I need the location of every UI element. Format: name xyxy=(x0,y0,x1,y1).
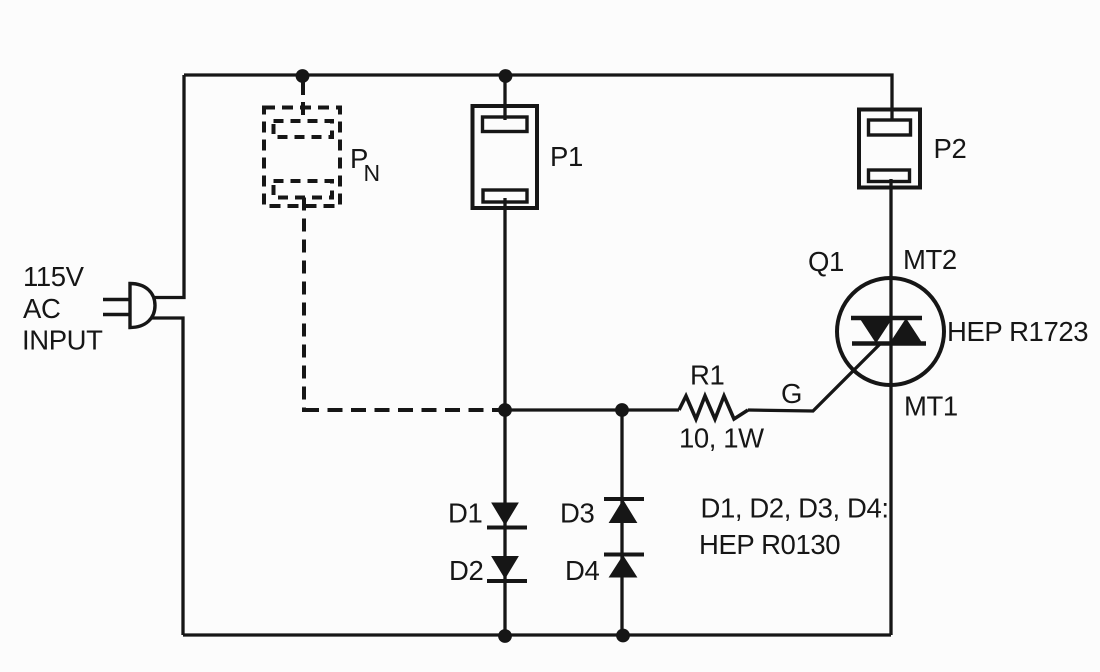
plug prong lower xyxy=(103,313,130,316)
junction node at gate node left (P1 branch) xyxy=(498,403,512,417)
junction node on bottom rail at D2 branch xyxy=(498,629,512,643)
wire: P2 bottom through triac to bottom rail xyxy=(889,179,892,635)
wire: left vertical (top rail down to plug upper terminal) xyxy=(148,75,184,298)
svg-text:115V: 115V xyxy=(23,261,85,292)
socket P2 upper slot xyxy=(869,120,911,135)
triac Q1 right triangle xyxy=(890,319,922,344)
socket P1 outline xyxy=(473,106,538,208)
svg-text:D1: D1 xyxy=(448,498,482,529)
wire: PN top stub (dashed) xyxy=(301,82,305,121)
svg-text:MT1: MT1 xyxy=(904,391,958,422)
wire: top rail from left vertical to right corner, drop to P2 xyxy=(184,75,892,121)
triac Q1 left triangle xyxy=(860,318,892,343)
socket P1 lower slot xyxy=(483,190,527,202)
svg-text:Q1: Q1 xyxy=(808,246,844,277)
triac Q1 circle xyxy=(837,278,944,385)
junction node on bottom rail at D4 branch xyxy=(616,629,630,643)
socket PN lower slot (dashed) xyxy=(274,181,333,198)
socket PN upper slot (dashed) xyxy=(274,121,333,137)
wire: P1 bottom through D1 D2 branch to bottom rail xyxy=(503,198,506,635)
diode D2 cathode bar xyxy=(487,579,527,583)
svg-text:D3: D3 xyxy=(560,498,594,529)
svg-text:AC: AC xyxy=(23,293,60,324)
diode D1 cathode bar xyxy=(487,526,527,530)
diode D2 triangle xyxy=(492,557,518,579)
plug prong upper xyxy=(103,298,130,301)
svg-text:N: N xyxy=(364,160,380,186)
wire: PN bottom stub dashed down to gate node level xyxy=(302,198,306,413)
socket P2 lower slot xyxy=(869,170,910,182)
triac Q1 upper bar xyxy=(851,316,922,321)
svg-text:MT2: MT2 xyxy=(903,244,957,275)
wire: dashed horizontal from PN branch to P1 branch junction xyxy=(304,408,499,412)
svg-text:HEP R0130: HEP R0130 xyxy=(699,529,840,560)
svg-text:R1: R1 xyxy=(690,360,724,391)
svg-text:10, 1W: 10, 1W xyxy=(679,423,764,454)
wire: D3 D4 branch from gate node to bottom rail xyxy=(620,410,623,635)
junction node on top rail at PN branch xyxy=(296,69,310,83)
socket P2 outline xyxy=(859,110,920,188)
svg-text:D4: D4 xyxy=(565,555,599,586)
diode D3 cathode bar xyxy=(604,497,644,501)
wire: P1 branch stub from top rail into P1 xyxy=(503,75,506,120)
svg-text:G: G xyxy=(781,378,802,409)
svg-text:P2: P2 xyxy=(934,133,967,164)
wire: plug lower terminal to left vertical down to bottom rail xyxy=(148,318,183,635)
resistor R1 xyxy=(679,396,748,419)
diode D4 cathode bar xyxy=(604,553,644,557)
svg-text:HEP R1723: HEP R1723 xyxy=(947,316,1088,347)
svg-text:INPUT: INPUT xyxy=(22,325,103,356)
svg-text:P1: P1 xyxy=(550,141,583,172)
diode D3 triangle xyxy=(610,501,637,523)
junction node on top rail at P1 branch xyxy=(499,69,513,83)
wire: gate node horizontal from junction to resistor xyxy=(505,408,679,411)
socket P1 upper slot xyxy=(483,117,528,132)
wire: bottom rail xyxy=(183,633,891,636)
diode D1 triangle xyxy=(492,503,518,525)
plug: 115V AC line plug body xyxy=(130,284,155,328)
svg-text:D2: D2 xyxy=(449,555,483,586)
socket PN dashed outline xyxy=(264,108,340,207)
junction node at gate node right (D3 branch) xyxy=(615,403,629,417)
svg-text:D1, D2, D3, D4:: D1, D2, D3, D4: xyxy=(701,493,889,524)
triac Q1 lower bar xyxy=(852,341,926,346)
diode D4 triangle xyxy=(610,556,637,577)
wire: resistor to gate bend and diagonal gate lead into triac xyxy=(748,343,881,411)
